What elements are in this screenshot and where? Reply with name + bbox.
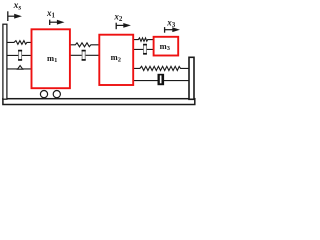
spring k4 (m2 to right wall) <box>134 66 189 70</box>
damper B2 (m1 to m2) <box>70 51 99 60</box>
spring k1 (wall to m1) <box>7 41 32 45</box>
mass m3 box <box>154 37 179 56</box>
spring k3 (m2 to m3) <box>133 38 153 41</box>
mass m1 box <box>32 29 70 88</box>
ground <box>3 99 195 105</box>
mass m2 box <box>99 35 133 85</box>
damper B1 (wall to m1) <box>7 51 31 60</box>
friction element (wall to m1) <box>7 66 31 70</box>
damper B3 (m2 to m3) <box>133 45 153 54</box>
wheel 2 under m1 <box>53 91 60 98</box>
arrow x_s <box>8 11 22 21</box>
arrow x_1 <box>50 20 65 25</box>
left wall <box>3 24 7 99</box>
wheel 1 under m1 <box>40 91 47 98</box>
spring k2 (m1 to m2) <box>70 43 99 47</box>
right wall <box>189 57 194 99</box>
svg-text:xs: xs <box>13 1 22 12</box>
arrow x_3 <box>165 27 180 33</box>
arrow x_2 <box>116 23 131 30</box>
damper B4 (m2 to right wall) <box>134 74 189 85</box>
